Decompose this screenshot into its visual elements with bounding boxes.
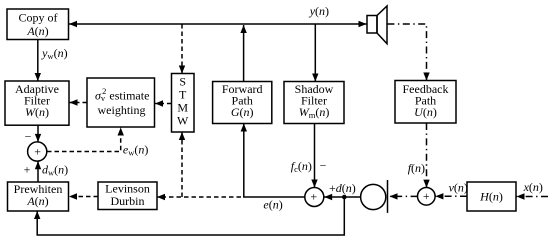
wire y(n) bus with arrows into Copy box and speaker: [69, 21, 367, 27]
wire Shadow Filter output down to sum2: [311, 124, 317, 188]
loudspeaker: [367, 6, 387, 44]
wire dashed bus down into STMW top: [179, 24, 185, 74]
wire dash-dot Feedback Path down to sum3: [423, 123, 429, 188]
block Shadow Filter Wm(n): [284, 82, 344, 124]
wire dash-dot H(n) to sum3: [435, 193, 467, 199]
svg-text:+: +: [310, 190, 317, 204]
wire mic output left to sum2: [324, 194, 360, 200]
svg-text:G(n): G(n): [231, 105, 254, 119]
microphone: [361, 180, 388, 213]
svg-text:x(n): x(n): [523, 180, 543, 194]
wire dashed sigma box to Adaptive Filter: [70, 99, 88, 105]
summing junction sum3: [418, 188, 436, 206]
wire bus down into Shadow Filter: [312, 24, 318, 82]
svg-text:Durbin: Durbin: [111, 194, 145, 208]
wire Copy output yw(n) down into Adaptive Filter: [35, 40, 41, 82]
wire Forward Path output up to bus: [240, 25, 246, 82]
wire dashed Levinson to Prewhiten: [69, 193, 98, 199]
summing junction sum1: [28, 142, 47, 161]
summing junction sum2: [305, 188, 324, 207]
svg-text:σv2 estimate: σv2 estimate: [95, 86, 149, 103]
svg-text:−: −: [320, 159, 327, 173]
svg-text:weighting: weighting: [98, 103, 146, 117]
block Copy of A(n): [7, 9, 69, 40]
svg-text:−: −: [25, 130, 32, 144]
svg-text:y(n): y(n): [309, 4, 329, 18]
svg-text:Copy of: Copy of: [19, 11, 58, 25]
svg-text:A(n): A(n): [26, 194, 48, 208]
svg-text:v(n): v(n): [449, 180, 468, 194]
svg-text:ew(n): ew(n): [123, 143, 148, 158]
wire dash-dot sum3 to microphone: [390, 193, 418, 199]
svg-text:+: +: [24, 163, 31, 177]
wire Prewhiten output up to sum1: [35, 161, 41, 182]
svg-text:A(n): A(n): [26, 24, 48, 38]
svg-text:e(n): e(n): [263, 197, 282, 211]
wire dash-dot speaker to Feedback Path: [387, 24, 429, 81]
wire e(n) left then up into Forward Path: [241, 124, 305, 198]
block sigma_v^2 estimate weighting: [87, 78, 155, 127]
svg-text:dw(n): dw(n): [42, 163, 68, 178]
wire dashed STMW to sigma box: [155, 100, 172, 106]
svg-text:f(n): f(n): [408, 161, 425, 175]
block H(n): [467, 182, 516, 211]
block Forward Path G(n): [213, 82, 272, 124]
svg-text:+: +: [34, 145, 41, 159]
svg-text:S: S: [179, 74, 186, 88]
svg-text:W: W: [177, 114, 189, 128]
svg-text:H(n): H(n): [479, 190, 503, 204]
svg-text:W(n): W(n): [25, 105, 49, 119]
svg-text:T: T: [179, 88, 187, 102]
wire dashed ew(n) from sum1 up into sigma box: [47, 128, 124, 152]
wire d(n) feedback down, left and up into Prewhiten: [34, 197, 344, 235]
block Prewhiten A(n): [8, 182, 69, 211]
wire dash-dot x(n) into H(n): [517, 193, 549, 199]
svg-text:+: +: [423, 189, 430, 203]
block Feedback Path U(n): [395, 81, 456, 124]
wire Adaptive Filter output down to sum1: [35, 125, 41, 142]
svg-text:M: M: [177, 101, 188, 115]
svg-text:U(n): U(n): [414, 105, 437, 119]
svg-text:fc(n): fc(n): [291, 159, 312, 174]
junction dot d(n): [342, 195, 347, 200]
block Levinson Durbin: [98, 182, 157, 210]
svg-text:yw(n): yw(n): [41, 46, 67, 61]
block STMW: [172, 74, 195, 133]
wire dashed branch up into STMW bottom: [179, 132, 185, 197]
wire dashed e(n) left to Levinson Durbin: [157, 194, 241, 200]
svg-text:+d(n): +d(n): [329, 181, 356, 195]
block Adaptive Filter W(n): [5, 81, 69, 125]
